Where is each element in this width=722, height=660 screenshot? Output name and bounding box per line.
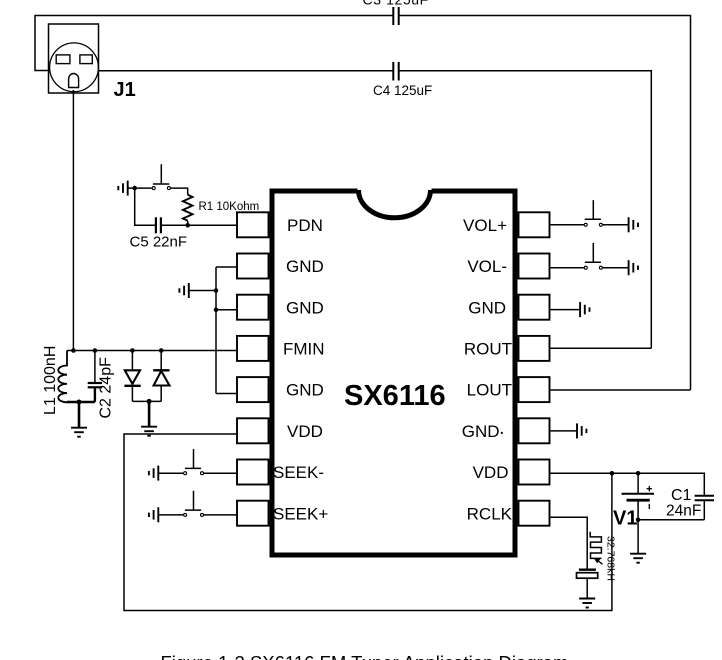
wire battery top lead — [637, 473, 639, 494]
connector J1 left contact slot — [56, 55, 70, 64]
wire switch S3 to SEEK+ pin — [204, 514, 237, 516]
pin 6 box VDD — [237, 418, 269, 443]
svg-text:ROUT: ROUT — [464, 340, 512, 359]
IC notch erase — [358, 188, 432, 195]
svg-text:J1: J1 — [114, 79, 136, 101]
wire VOL- to switch S5 — [551, 267, 584, 269]
svg-text:C1: C1 — [671, 487, 692, 504]
wire node down to C5 — [135, 188, 155, 225]
pin 4 box FMIN — [237, 336, 269, 361]
switch S5 left contact — [584, 266, 587, 269]
pin 11 box GND — [519, 418, 550, 443]
svg-text:V1: V1 — [613, 508, 637, 530]
battery V1 plus sign — [647, 486, 652, 491]
switch S5 bridge bar — [585, 261, 601, 263]
diode D1 triangle — [125, 370, 140, 384]
wire ROUT to C4 vertical — [551, 347, 652, 349]
ground sideways at GND bus — [179, 283, 188, 298]
crystal V? body — [577, 573, 598, 579]
wire SEEK+ ground to switch — [158, 514, 183, 516]
wire switch S5 to ground — [603, 267, 629, 269]
wire VOL+ to switch S4 — [551, 224, 584, 226]
svg-text:GND: GND — [286, 298, 324, 317]
battery V1 negative plate — [627, 499, 650, 502]
wire FMIN rail — [67, 350, 237, 352]
ground sideways at VOL+ — [629, 217, 638, 232]
ground sideways at SEEK- — [149, 466, 158, 481]
inductor L1 — [58, 351, 67, 403]
switch S3 left contact — [184, 513, 187, 516]
node junction R1/C5/PDN — [185, 223, 190, 228]
pin 14 box GND — [519, 295, 550, 320]
wire VDD left loop — [124, 434, 612, 611]
node junction VDD/battery — [636, 471, 641, 476]
capacitor C4 right plate — [398, 62, 400, 81]
connector J1 right contact slot — [80, 55, 92, 64]
diode D1 cathode bar — [124, 385, 140, 387]
svg-text:L1 100nH: L1 100nH — [42, 346, 59, 415]
switch S3 bridge bar — [185, 509, 201, 511]
svg-text:SEEK-: SEEK- — [273, 463, 324, 482]
wire SEEK- ground to switch — [158, 472, 183, 474]
switch S1 left contact — [152, 187, 155, 190]
battery V1 minus mark — [648, 504, 650, 509]
ground below diodes — [141, 427, 157, 436]
capacitor C2 bottom plate — [88, 386, 102, 388]
svg-text:R1 10Kohm: R1 10Kohm — [199, 201, 260, 213]
svg-text:GND: GND — [286, 257, 324, 276]
pin 5 box GND — [237, 377, 269, 402]
svg-text:C3 125uF: C3 125uF — [363, 0, 429, 8]
connector J1 center pin (mouth) — [69, 74, 79, 88]
capacitor C2 top lead — [94, 351, 96, 383]
svg-text:GND: GND — [462, 422, 500, 441]
switch S3 right contact — [201, 513, 204, 516]
wire C4 rail left part — [98, 70, 393, 72]
svg-text:VDD: VDD — [287, 422, 323, 441]
switch S5 stem — [592, 243, 594, 262]
node junction diode ground — [147, 399, 152, 404]
wire C5 to R1 node to PDN pin — [162, 224, 237, 226]
svg-text:VOL+: VOL+ — [463, 216, 507, 235]
node junction J1/FMIN — [71, 348, 76, 353]
switch S3 stem — [193, 491, 195, 510]
crystal waveform arrow tail — [597, 560, 603, 565]
ground stem below L1 — [78, 402, 81, 427]
svg-text:VDD: VDD — [473, 463, 509, 482]
switch S2 stem — [193, 449, 195, 468]
crystal bottom lead — [586, 578, 588, 598]
IC notch arc — [359, 190, 431, 218]
wire PDN ground to node — [128, 187, 135, 189]
wire top rail (C3 net) left part — [35, 16, 393, 71]
wire J1 pin down to FMIN rail — [72, 90, 74, 351]
wire GND bus to pin5 — [216, 393, 237, 395]
ground sideways at VOL- — [629, 260, 638, 275]
capacitor C1 top plate — [695, 495, 714, 497]
pin 16 box VOL+ — [519, 212, 550, 237]
wire node to switch S1 — [135, 187, 152, 189]
node junction bus pin3 tap — [214, 308, 219, 313]
wire GND bus to pin2 — [216, 266, 237, 268]
switch S2 left contact — [184, 472, 187, 475]
switch S4 stem — [592, 200, 594, 219]
pin 2 box GND — [237, 254, 269, 279]
node junction VDD/bottom loop — [610, 471, 615, 476]
connector J1 outer box — [49, 24, 99, 93]
crystal waveform arrow head — [594, 558, 601, 563]
switch S2 right contact — [201, 472, 204, 475]
node junction L1/C2 ground — [77, 400, 82, 405]
svg-text:VOL-: VOL- — [467, 257, 507, 276]
pin 13 box ROUT — [519, 336, 550, 361]
switch S2 bridge bar — [185, 467, 201, 469]
wire C1 return — [638, 519, 704, 521]
capacitor C5 left plate — [155, 217, 157, 233]
svg-text:C2 24pF: C2 24pF — [98, 357, 115, 419]
node junction D1 tap — [130, 348, 135, 353]
switch S4 bridge bar — [585, 218, 601, 220]
switch S4 left contact — [584, 223, 587, 226]
ground sideways at SEEK+ — [149, 507, 158, 522]
crystal waveform glyph — [590, 532, 601, 559]
pin 3 box GND — [237, 295, 269, 320]
svg-text:SX6116: SX6116 — [344, 380, 446, 412]
wire R1 bottom to PDN wire — [187, 221, 189, 226]
capacitor C4 left plate — [392, 62, 394, 81]
wire top rail (C3 net) right part — [399, 16, 691, 391]
wire C1 bottom lead — [703, 500, 705, 520]
diode D2 bottom lead — [160, 386, 162, 402]
wire bus ground tap — [190, 290, 217, 292]
pin 1 box PDN — [237, 212, 269, 237]
wire RCLK to crystal — [551, 517, 588, 569]
wire GND bus to pin3 — [216, 309, 237, 311]
svg-text:GND: GND — [468, 298, 506, 317]
pin 10 box VDD — [519, 460, 550, 485]
svg-text:FMIN: FMIN — [283, 340, 325, 359]
diode D2 cathode bar — [153, 369, 169, 371]
ground sideways at GND11 — [577, 423, 586, 438]
switch S1 stem — [160, 164, 162, 184]
svg-text:C5 22nF: C5 22nF — [130, 234, 188, 251]
ground sideways at GND14 — [580, 302, 589, 317]
ground below L1 — [71, 428, 87, 437]
node junction D2 tap — [159, 348, 164, 353]
svg-text:GND: GND — [286, 381, 324, 400]
wire D1 bottom to D2 bottom — [132, 400, 161, 402]
ground below battery — [630, 554, 646, 563]
ground below crystal — [579, 599, 595, 608]
pin 9 box RCLK — [519, 501, 550, 526]
wire C4 rail right part — [399, 71, 651, 348]
svg-text:LOUT: LOUT — [467, 381, 512, 400]
svg-text:PDN: PDN — [287, 216, 323, 235]
capacitor C3 right plate — [398, 7, 400, 25]
wire GND14 to ground — [551, 309, 581, 311]
capacitor C2 bottom lead — [94, 388, 96, 402]
switch S5 right contact — [599, 266, 602, 269]
capacitor C1 bottom plate — [695, 499, 714, 501]
pin 15 box VOL- — [519, 254, 550, 279]
switch S1 right contact — [167, 187, 170, 190]
pin 8 box SEEK+ — [237, 501, 269, 526]
capacitor C5 right plate — [160, 217, 162, 233]
wire GND bus vertical — [215, 267, 217, 394]
switch S1 bridge bar — [153, 183, 169, 185]
pin label GND 11 dot — [501, 432, 503, 434]
wire GND11 to ground — [551, 430, 578, 432]
resistor R1 — [183, 195, 193, 221]
svg-text:RCLK: RCLK — [467, 504, 513, 523]
ground stem below battery — [637, 520, 639, 553]
node junction C2 tap — [93, 348, 98, 353]
svg-text:SEEK+: SEEK+ — [273, 504, 328, 523]
node junction battery/C1 return — [636, 518, 641, 523]
ground sideways at PDN switch — [118, 181, 127, 196]
wire switch S2 to SEEK- pin — [204, 472, 237, 474]
wire VDD right rail — [551, 473, 705, 495]
svg-text:32.768kH: 32.768kH — [605, 536, 617, 581]
svg-text:C4 125uF: C4 125uF — [373, 83, 432, 98]
diode D1 bottom lead — [131, 386, 133, 402]
battery V1 positive plate — [622, 493, 655, 495]
diode D2 triangle — [154, 371, 170, 386]
diode D1 top lead — [131, 351, 133, 371]
wire L1 bottom to C2 bottom — [67, 401, 95, 404]
IC U1 SX6116 body — [272, 191, 515, 555]
capacitor C3 left plate — [392, 7, 394, 25]
switch S4 right contact — [599, 223, 602, 226]
pin 12 box LOUT — [519, 377, 550, 402]
connector J1 circle — [50, 43, 99, 92]
wire switch S1 to R1 top — [171, 188, 188, 195]
diode D2 top lead — [160, 351, 162, 371]
wire LOUT to C3 vertical — [551, 389, 691, 391]
ground stem below diodes — [148, 401, 151, 426]
wire switch S4 to ground — [603, 224, 629, 226]
node junction bus ground tap — [214, 288, 219, 293]
crystal V? top plate — [579, 569, 596, 571]
svg-text:Figure 1-2 SX6116 FM Tuner A: Figure 1-2 SX6116 FM Tuner Application D… — [161, 652, 569, 660]
wire battery bottom lead — [637, 500, 639, 520]
node junction PDN switch/C5 — [132, 186, 137, 191]
svg-text:24nF: 24nF — [666, 503, 701, 520]
capacitor C2 top plate — [88, 382, 102, 384]
pin 7 box SEEK- — [237, 460, 269, 485]
